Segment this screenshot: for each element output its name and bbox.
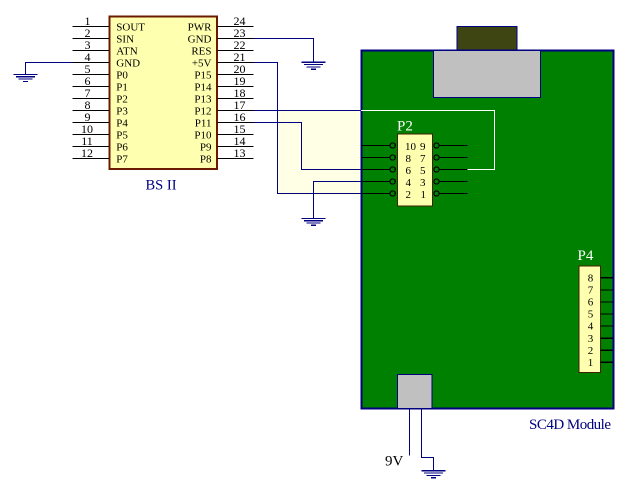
svg-text:SC4D Module: SC4D Module [529, 417, 611, 433]
U1 right pin numbers 24-13 [234, 14, 246, 160]
U1 left pin numbers 1-12 [81, 14, 93, 160]
svg-text:P5: P5 [116, 130, 128, 142]
svg-text:P2: P2 [397, 118, 413, 134]
svg-text:GND: GND [116, 58, 140, 70]
U1 pin 19 stub [218, 86, 254, 88]
U1 pin 12 stub [73, 158, 110, 160]
P2 left pin stubs [361, 146, 390, 194]
U1 pin 20 stub [218, 74, 254, 76]
U1 pin 13 stub [218, 158, 254, 160]
svg-text:5: 5 [420, 165, 426, 177]
U1 pin 9 stub [73, 122, 110, 124]
U1 pin 8 stub [73, 110, 110, 112]
wire: P2 pin4 to ground [314, 182, 362, 219]
svg-text:1: 1 [588, 357, 594, 369]
wire (white, on board): P12 to P2 pin5 [361, 111, 495, 170]
svg-text:6: 6 [406, 165, 412, 177]
svg-text:GND: GND [188, 34, 212, 46]
svg-text:P7: P7 [116, 154, 128, 166]
wire: U1 pin17 P12 toward board [254, 110, 362, 112]
wire: battery negative to ground [422, 409, 434, 471]
U1 pin 17 stub [218, 110, 254, 112]
connector P2 body [398, 134, 433, 206]
svg-text:8: 8 [406, 153, 412, 165]
svg-text:P14: P14 [194, 82, 212, 94]
svg-text:P0: P0 [116, 70, 128, 82]
P2 pin numbers [405, 141, 426, 201]
svg-text:RES: RES [191, 46, 211, 58]
ground (left of U1) [14, 75, 38, 82]
svg-text:5: 5 [588, 309, 594, 321]
wire: U1 pin4 GND to left ground [26, 63, 73, 75]
board top connector (olive) [457, 27, 517, 51]
U1 pin 21 stub [218, 62, 254, 64]
U1 pin 5 stub [73, 74, 110, 76]
U1 pin 23 stub [218, 38, 254, 40]
board bottom power connector (gray) [398, 375, 433, 409]
svg-text:ATN: ATN [116, 46, 137, 58]
svg-text:7: 7 [588, 285, 594, 297]
svg-text:P8: P8 [200, 154, 212, 166]
svg-text:P4: P4 [116, 118, 128, 130]
wire: U1 pin23 GND to ground [254, 39, 314, 63]
wire: U1 pin21 +5V to P2 pin2 [254, 63, 362, 194]
svg-text:P6: P6 [116, 142, 128, 154]
U1 pin 7 stub [73, 98, 110, 100]
svg-text:12: 12 [81, 146, 93, 160]
U1 pin 22 stub [218, 50, 254, 52]
U1 pin 2 stub [73, 38, 110, 40]
U1 pin 18 stub [218, 98, 254, 100]
ground (battery negative) [422, 471, 446, 478]
P2 left pin circles [390, 143, 395, 196]
svg-text:P4: P4 [578, 248, 594, 264]
U1 left pin labels [116, 22, 145, 166]
svg-text:3: 3 [588, 333, 594, 345]
U1 pin 6 stub [73, 86, 110, 88]
svg-text:13: 13 [234, 146, 246, 160]
svg-text:SOUT: SOUT [116, 22, 145, 34]
svg-text:4: 4 [406, 177, 412, 189]
IC U1 BS II body [110, 17, 218, 170]
svg-text:7: 7 [420, 153, 426, 165]
svg-text:SIN: SIN [116, 34, 134, 46]
wire: battery positive 9V [409, 409, 411, 456]
board top gray block [434, 51, 541, 98]
U1 pin 10 stub [73, 134, 110, 136]
svg-text:6: 6 [588, 297, 594, 309]
svg-text:+5V: +5V [192, 58, 212, 70]
svg-text:4: 4 [588, 321, 594, 333]
svg-text:9V: 9V [385, 453, 404, 469]
svg-text:8: 8 [588, 272, 594, 284]
U1 pin 4 stub [73, 62, 110, 64]
connector P4 body [579, 266, 601, 373]
svg-text:9: 9 [420, 141, 426, 153]
svg-text:P10: P10 [194, 130, 212, 142]
svg-text:P11: P11 [195, 118, 212, 130]
ground (U1 pin 23) [302, 62, 326, 69]
P4 pin numbers [588, 272, 594, 369]
U1 pin 11 stub [73, 146, 110, 148]
net highlight region (pale yellow) [278, 111, 362, 195]
U1 pin 3 stub [73, 50, 110, 52]
svg-text:2: 2 [588, 345, 594, 357]
svg-text:1: 1 [421, 189, 427, 201]
P2 right pin circles [434, 143, 439, 196]
svg-text:BS II: BS II [146, 178, 177, 194]
U1 pin 14 stub [218, 146, 254, 148]
svg-text:P2: P2 [116, 94, 128, 106]
svg-text:3: 3 [420, 177, 426, 189]
svg-text:P3: P3 [116, 106, 128, 118]
P2 right pin stubs [439, 146, 467, 194]
svg-text:P9: P9 [200, 142, 212, 154]
svg-text:2: 2 [406, 189, 412, 201]
svg-text:PWR: PWR [188, 22, 213, 34]
U1 right pin labels [188, 22, 213, 166]
U1 pin 24 stub [218, 26, 254, 28]
wire: U1 pin16 P11 to P2 pin6 [254, 123, 362, 170]
svg-text:P1: P1 [116, 82, 128, 94]
svg-text:P13: P13 [194, 94, 212, 106]
P4 pin stubs [601, 278, 614, 363]
ground (P2 pin 4) [302, 218, 326, 225]
SC4D module board [362, 51, 614, 409]
U1 pin 1 stub [73, 26, 110, 28]
U1 pin 15 stub [218, 134, 254, 136]
svg-text:P15: P15 [194, 70, 212, 82]
U1 pin 16 stub [218, 122, 254, 124]
svg-text:P12: P12 [194, 106, 211, 118]
svg-text:10: 10 [405, 141, 417, 153]
